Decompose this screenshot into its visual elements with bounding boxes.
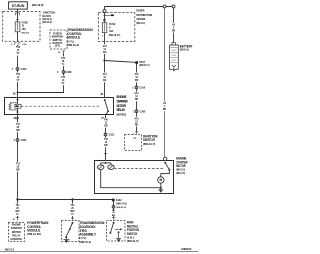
svg-text:MODULE: MODULE — [27, 229, 40, 233]
starter label — [176, 157, 188, 176]
power distribution center box — [98, 13, 135, 42]
TCM label — [67, 28, 93, 47]
svg-text:S102: S102 — [116, 199, 122, 202]
solenoid winding bridge — [101, 163, 111, 165]
fuse F8 value label — [109, 24, 121, 37]
svg-text:RD: RD — [135, 80, 139, 82]
svg-text:DB: DB — [104, 126, 108, 128]
starter B+ terminal — [164, 157, 167, 160]
svg-text:(8W-10-17): (8W-10-17) — [109, 35, 121, 37]
engine starter motor relay K1 box — [5, 98, 114, 115]
wire C100 to relay pin 85 with label T40 14 VT — [17, 70, 19, 97]
relay pin 85 terminal — [17, 99, 19, 101]
svg-text:C106: C106 — [139, 87, 145, 90]
svg-text:SWITCH: SWITCH — [143, 138, 155, 142]
connector C108 — [62, 71, 65, 74]
wire ST-RUN to junction block fuse — [17, 9, 19, 22]
motor ground wire — [160, 183, 162, 190]
svg-text:RELAY: RELAY — [12, 234, 20, 237]
relay resistor — [9, 103, 11, 110]
svg-text:BR/: BR/ — [71, 211, 75, 213]
ground bus T41 — [18, 199, 113, 201]
wire C102 to ground bus, label T41 20 BR — [17, 141, 19, 199]
svg-text:40A: 40A — [109, 30, 114, 33]
PNP throw arrow — [115, 228, 120, 230]
svg-text:15A: 15A — [22, 28, 27, 31]
svg-text:RD: RD — [172, 30, 176, 32]
svg-text:(8W-10-7): (8W-10-7) — [143, 142, 155, 146]
battery feed cable to starter (A2 4 BK), light run — [164, 8, 166, 157]
svg-text:BR: BR — [16, 170, 20, 172]
PDC feed stud — [103, 9, 106, 12]
svg-text:DG: DG — [103, 52, 107, 54]
starter solenoid S terminal — [105, 162, 107, 164]
node B+ mark — [105, 14, 111, 16]
svg-text:BR: BR — [112, 215, 116, 217]
pin cavity at junction block top — [16, 13, 20, 15]
ignition switch label — [143, 134, 158, 145]
relay contact: terminal 30 — [104, 99, 106, 101]
wire relay 86 to C102, label T41 20 BR — [17, 115, 19, 139]
svg-text:C101: C101 — [109, 134, 115, 137]
svg-text:MOTOR: MOTOR — [117, 104, 127, 108]
PCM pin 31 — [16, 218, 19, 221]
junction block label — [43, 11, 56, 25]
svg-text:MOTOR: MOTOR — [12, 231, 21, 234]
svg-text:C108: C108 — [66, 71, 72, 74]
wire to PNP pin, label BR — [113, 208, 115, 217]
PNP ground leg — [118, 231, 120, 233]
TCM internal pin label FUSED IGNITION SWITCH OUTPUT (ST) — [52, 33, 63, 48]
engine starter motor M1 box — [95, 161, 174, 194]
svg-text:ENGINE: ENGINE — [12, 224, 22, 227]
winding return wire — [101, 170, 161, 188]
svg-text:(8W-10-2): (8W-10-2) — [136, 22, 145, 25]
svg-text:A41: A41 — [134, 92, 139, 95]
svg-text:8W-21-2: 8W-21-2 — [5, 247, 14, 251]
connector C100 — [16, 68, 19, 71]
starter solenoid pin — [104, 154, 107, 157]
resistor-coil links — [10, 103, 18, 110]
svg-text:MODULE: MODULE — [67, 36, 80, 40]
starter motor M — [158, 177, 164, 183]
svg-text:ENGINE: ENGINE — [117, 95, 127, 99]
svg-text:STARTER: STARTER — [11, 227, 22, 230]
svg-text:(8W-31-26): (8W-31-26) — [27, 232, 41, 236]
junction dot TRS branch — [71, 198, 73, 200]
PNP eyelet — [113, 209, 115, 211]
svg-text:RD: RD — [135, 99, 139, 101]
svg-text:(8W-21-5): (8W-21-5) — [116, 207, 126, 209]
junction dot relay86 bus — [16, 198, 18, 200]
svg-text:C100: C100 — [21, 68, 27, 71]
PDC eyelet terminal 2 — [172, 5, 175, 8]
svg-text:RD: RD — [135, 124, 139, 126]
wire C108 joining relay 85 feed, label T40 14 VT — [18, 73, 64, 92]
PNP pin — [112, 218, 115, 221]
PCM label — [27, 221, 49, 236]
connector C106 — [135, 86, 138, 89]
relay coil — [15, 104, 21, 108]
starter contact arm — [164, 162, 166, 164]
svg-text:(8W-31-2): (8W-31-2) — [67, 43, 79, 47]
svg-text:STARTER: STARTER — [117, 99, 129, 103]
wire bus to TRS, label T41 20 BR — [72, 200, 74, 218]
fuse F31 value label — [22, 22, 30, 35]
connector C260 — [135, 110, 138, 113]
park/neutral position switch S4 — [107, 221, 126, 242]
node ST-RUN feed box — [9, 2, 28, 9]
power distribution center bus — [105, 7, 173, 10]
battery negative stub — [173, 70, 175, 72]
PDC label — [136, 9, 152, 25]
svg-text:(ST): (ST) — [55, 45, 60, 48]
svg-text:S137: S137 — [139, 61, 145, 64]
svg-text:(8W-30-2): (8W-30-2) — [180, 48, 189, 52]
wire fuse F31 to connector C14 — [17, 32, 19, 42]
wire TCM pin to C108, label T40 18 YL — [63, 53, 65, 71]
transmission solenoid/TRS assembly S3 — [62, 221, 80, 242]
junction dot at A21 — [103, 59, 105, 61]
svg-text:(8W-21-6): (8W-21-6) — [176, 172, 185, 175]
svg-text:DB: DB — [104, 145, 108, 147]
relay pin 86 cavity — [16, 117, 18, 119]
TRS ground — [63, 237, 69, 239]
battery BT1 — [170, 43, 179, 70]
svg-text:C102: C102 — [21, 139, 27, 142]
TRS pin — [71, 218, 74, 220]
svg-text:(8W-31-4): (8W-31-4) — [79, 240, 91, 244]
svg-text:CENTER: CENTER — [136, 17, 146, 21]
svg-text:(4.7L): (4.7L) — [79, 236, 86, 240]
svg-text:FUSE: FUSE — [109, 24, 116, 26]
solenoid hold-in winding — [108, 165, 114, 170]
fuse F8 in PDC — [102, 23, 107, 33]
wire relay30 label A21 12 DG — [102, 73, 108, 83]
svg-text:A21: A21 — [103, 45, 108, 48]
svg-text:(8W-10-8): (8W-10-8) — [32, 3, 44, 7]
junction block J1 — [3, 11, 40, 41]
svg-text:(8W-12-8): (8W-12-8) — [43, 21, 52, 24]
TRS label — [79, 221, 105, 244]
fuse F31 in junction block — [15, 22, 20, 32]
wire S102 to PNP switch — [113, 201, 115, 206]
ground at starter — [159, 189, 164, 191]
relay coil wire from pin 85 — [17, 98, 19, 115]
wire stud to fuse 8 — [104, 12, 106, 22]
svg-text:BK: BK — [163, 109, 167, 111]
svg-text:A21: A21 — [103, 73, 108, 76]
svg-text:(4.7L): (4.7L) — [67, 39, 74, 43]
wire relay 87 to C101, label T40 12 DB — [105, 115, 107, 134]
PNP label — [127, 221, 140, 244]
wire S137 to ignition switch, label A41 12 BK — [136, 64, 138, 86]
svg-text:MOTOR: MOTOR — [176, 164, 186, 168]
svg-text:(IN PDC): (IN PDC) — [117, 112, 127, 116]
svg-text:ST-RUN: ST-RUN — [12, 4, 25, 8]
svg-text:CONTROL: CONTROL — [10, 238, 22, 241]
ignition switch pin 1 — [135, 132, 138, 135]
connector C102 — [16, 139, 19, 142]
relay actuating link (dashed) — [21, 105, 101, 107]
connector C14 half-shells — [15, 43, 21, 45]
svg-text:(8W-12-8): (8W-12-8) — [22, 32, 30, 34]
connector C101 — [104, 133, 107, 136]
splice S137 branch wire — [105, 61, 136, 63]
svg-text:(4.0L): (4.0L) — [127, 236, 134, 240]
wire bus to PCM, label T41 20 BR — [17, 200, 19, 218]
svg-text:M: M — [159, 178, 162, 182]
transmission control module U1 (4.7L) — [50, 30, 67, 49]
TRS switch contact — [72, 222, 74, 224]
splice S137 — [135, 61, 138, 64]
svg-text:XJ8W212: XJ8W212 — [181, 248, 192, 251]
solenoid pull-in winding — [98, 165, 104, 170]
svg-text:A41: A41 — [134, 117, 139, 120]
ignition switch S2 — [125, 135, 142, 151]
svg-text:C260: C260 — [140, 110, 146, 113]
battery positive cable, label A0 2 RD — [173, 8, 175, 43]
powertrain control module U2 — [9, 223, 25, 242]
splice S102 — [112, 199, 115, 202]
svg-text:BR/: BR/ — [16, 211, 20, 213]
wire C101 to starter solenoid, label T40 12 DB — [105, 136, 107, 161]
svg-text:(8W-21-5): (8W-21-5) — [127, 239, 139, 243]
svg-text:A41: A41 — [134, 73, 139, 76]
PNP switch contact — [113, 222, 115, 224]
svg-text:SWITCH: SWITCH — [127, 232, 138, 236]
junction dot — [104, 14, 106, 16]
PDC eyelet terminal 1 — [163, 5, 166, 8]
relay label — [117, 95, 129, 116]
TCM pin 23 — [62, 51, 65, 53]
connector at PNP — [112, 205, 115, 208]
svg-text:DG: DG — [103, 80, 107, 82]
wire C14 to C100 with label T40 14 VT — [17, 45, 19, 68]
wire C260 to ignition switch, label A41 12 RD — [136, 113, 138, 132]
svg-text:ASSEMBLY: ASSEMBLY — [79, 233, 96, 237]
svg-text:BR: BR — [16, 130, 20, 132]
wire C106 to C260, label A41 12 RD — [136, 89, 138, 110]
wire PDC fuse to relay pin 30, label A21 12 DG — [104, 33, 106, 98]
svg-text:(8W-21-6): (8W-21-6) — [116, 203, 127, 205]
relay contact arm — [105, 100, 108, 111]
solenoid plunger link (dashed) — [114, 167, 163, 169]
svg-text:RELAY: RELAY — [117, 108, 126, 112]
svg-text:(8W-15-7): (8W-15-7) — [139, 65, 150, 67]
page footer rule — [0, 251, 198, 253]
